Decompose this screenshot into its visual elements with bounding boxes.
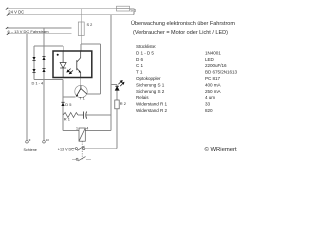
svg-text:10: 10 <box>46 138 50 142</box>
wire contact1 right <box>85 148 117 150</box>
wire opto emitter to T1 <box>80 78 82 86</box>
wire S1 through-line <box>117 8 135 10</box>
optocoupler LED <box>60 51 66 78</box>
relay contact 1 <box>75 148 77 150</box>
svg-text:Sicherung S 2: Sicherung S 2 <box>136 89 165 94</box>
terminal ticks Fahrstrom <box>6 27 8 29</box>
svg-text:R 2: R 2 <box>120 101 126 106</box>
wire C1 right lead <box>86 114 111 116</box>
svg-text:D 5: D 5 <box>65 102 71 107</box>
optocoupler phototransistor <box>77 51 81 78</box>
svg-text:R 1: R 1 <box>64 116 70 121</box>
wire contact2 left <box>72 158 76 160</box>
transistor T1 symbol <box>76 86 87 97</box>
wire R1 lead <box>78 114 84 116</box>
fuse S1 <box>117 6 130 11</box>
svg-text:BD 675/2N1613: BD 675/2N1613 <box>205 70 238 75</box>
wire D6 to R2 <box>116 85 118 101</box>
resistor R2 box <box>115 100 119 109</box>
wire T1 collector <box>87 93 100 95</box>
optocoupler pin1 dot <box>57 54 59 56</box>
wire contact2 right <box>86 158 91 160</box>
svg-text:T 1: T 1 <box>79 96 85 101</box>
wire left vertical <box>62 80 64 131</box>
svg-text:LED: LED <box>205 57 215 62</box>
resistor R1 zigzag <box>63 113 78 118</box>
wire opto LED anode drop <box>62 46 64 51</box>
wire S1 output drop <box>133 9 135 15</box>
svg-text:C 1: C 1 <box>136 63 143 68</box>
svg-text:PC 817: PC 817 <box>205 76 221 81</box>
wire diode bottom bus <box>34 79 63 81</box>
svg-text:D 1 - 4: D 1 - 4 <box>32 80 45 85</box>
wire diode top bus <box>34 45 63 47</box>
svg-text:Widerstand R 1: Widerstand R 1 <box>136 102 167 107</box>
svg-text:4 um: 4 um <box>205 95 215 100</box>
svg-text:9: 9 <box>29 138 31 142</box>
svg-text:Schiene: Schiene <box>24 148 37 152</box>
wire S2 bus drop <box>100 44 102 94</box>
svg-text:820: 820 <box>205 108 213 113</box>
wire Fahrstrom rail D <box>8 33 72 35</box>
wire contact1 left <box>71 148 75 150</box>
svg-text:D 6: D 6 <box>136 57 143 62</box>
svg-text:2200uF/16: 2200uF/16 <box>205 63 227 68</box>
svg-text:250 mA: 250 mA <box>205 89 222 94</box>
wire S2 to opto collector <box>80 36 82 45</box>
svg-text:400 mA: 400 mA <box>205 82 222 87</box>
svg-text:+13 V DC: +13 V DC <box>58 148 74 152</box>
diode D3 <box>42 56 45 60</box>
svg-text:T 1: T 1 <box>136 70 143 75</box>
optocoupler U1 box <box>53 51 92 78</box>
wire left track drop <box>26 34 28 141</box>
svg-text:Relais: Relais <box>136 95 149 100</box>
terminal schiene 2 <box>43 141 46 144</box>
wire S2 bus <box>81 43 100 45</box>
svg-text:4: 4 <box>86 126 88 130</box>
relay contact 2 <box>76 158 78 160</box>
relay actuator dashed link <box>81 141 83 159</box>
wire relay right lead <box>85 130 111 132</box>
diode D2 <box>32 69 35 73</box>
svg-text:6 – 13 V DC Fahrstrom: 6 – 13 V DC Fahrstrom <box>8 29 50 34</box>
wire R2 down to contact <box>116 109 118 149</box>
wire Fahrstrom rail C <box>7 27 72 29</box>
svg-text:1: 1 <box>76 126 78 130</box>
wire S2 feed <box>80 9 82 22</box>
fuse S2 <box>78 22 84 36</box>
svg-text:(Verbraucher = Motor oder Lich: (Verbraucher = Motor oder Licht / LED) <box>133 30 228 36</box>
svg-text:Stückliste:: Stückliste: <box>136 44 156 49</box>
relay coil K1 <box>79 128 85 141</box>
wire relay left lead <box>63 130 79 132</box>
terminal schiene 1 <box>26 141 29 144</box>
diode D4 <box>42 68 45 72</box>
svg-text:S 1: S 1 <box>130 7 136 12</box>
diode D1 <box>32 57 35 61</box>
wire 24V rail A <box>7 8 117 10</box>
svg-text:Sicherung S 1: Sicherung S 1 <box>136 82 165 87</box>
svg-text:S 2: S 2 <box>87 22 93 27</box>
wire LED D6 branch <box>111 84 117 86</box>
wire right track drop <box>43 28 45 141</box>
svg-text:1N4001: 1N4001 <box>205 50 221 55</box>
LED D6 <box>115 81 124 91</box>
wire right vertical <box>110 15 112 131</box>
svg-text:© WRiemert: © WRiemert <box>205 146 238 153</box>
wire diode branch left <box>33 46 35 80</box>
capacitor C1 <box>84 112 87 119</box>
parts list <box>136 44 238 113</box>
diode D5 <box>61 102 64 106</box>
wire 24V rail B <box>8 14 134 16</box>
optocoupler light arrows <box>67 69 73 74</box>
transistor T1 circle <box>75 85 87 97</box>
terminal ticks 24V <box>6 8 9 35</box>
svg-text:Widerstand R 2: Widerstand R 2 <box>136 108 167 113</box>
wire T1 emitter to left <box>63 96 76 98</box>
svg-text:Optokoppler: Optokoppler <box>136 76 161 81</box>
svg-text:Überwachung elektronisch über: Überwachung elektronisch über Fahrstrom <box>131 20 235 27</box>
svg-text:D 1 - D 5: D 1 - D 5 <box>136 50 154 55</box>
svg-text:24 V DC: 24 V DC <box>8 9 24 14</box>
svg-text:33: 33 <box>205 102 211 107</box>
